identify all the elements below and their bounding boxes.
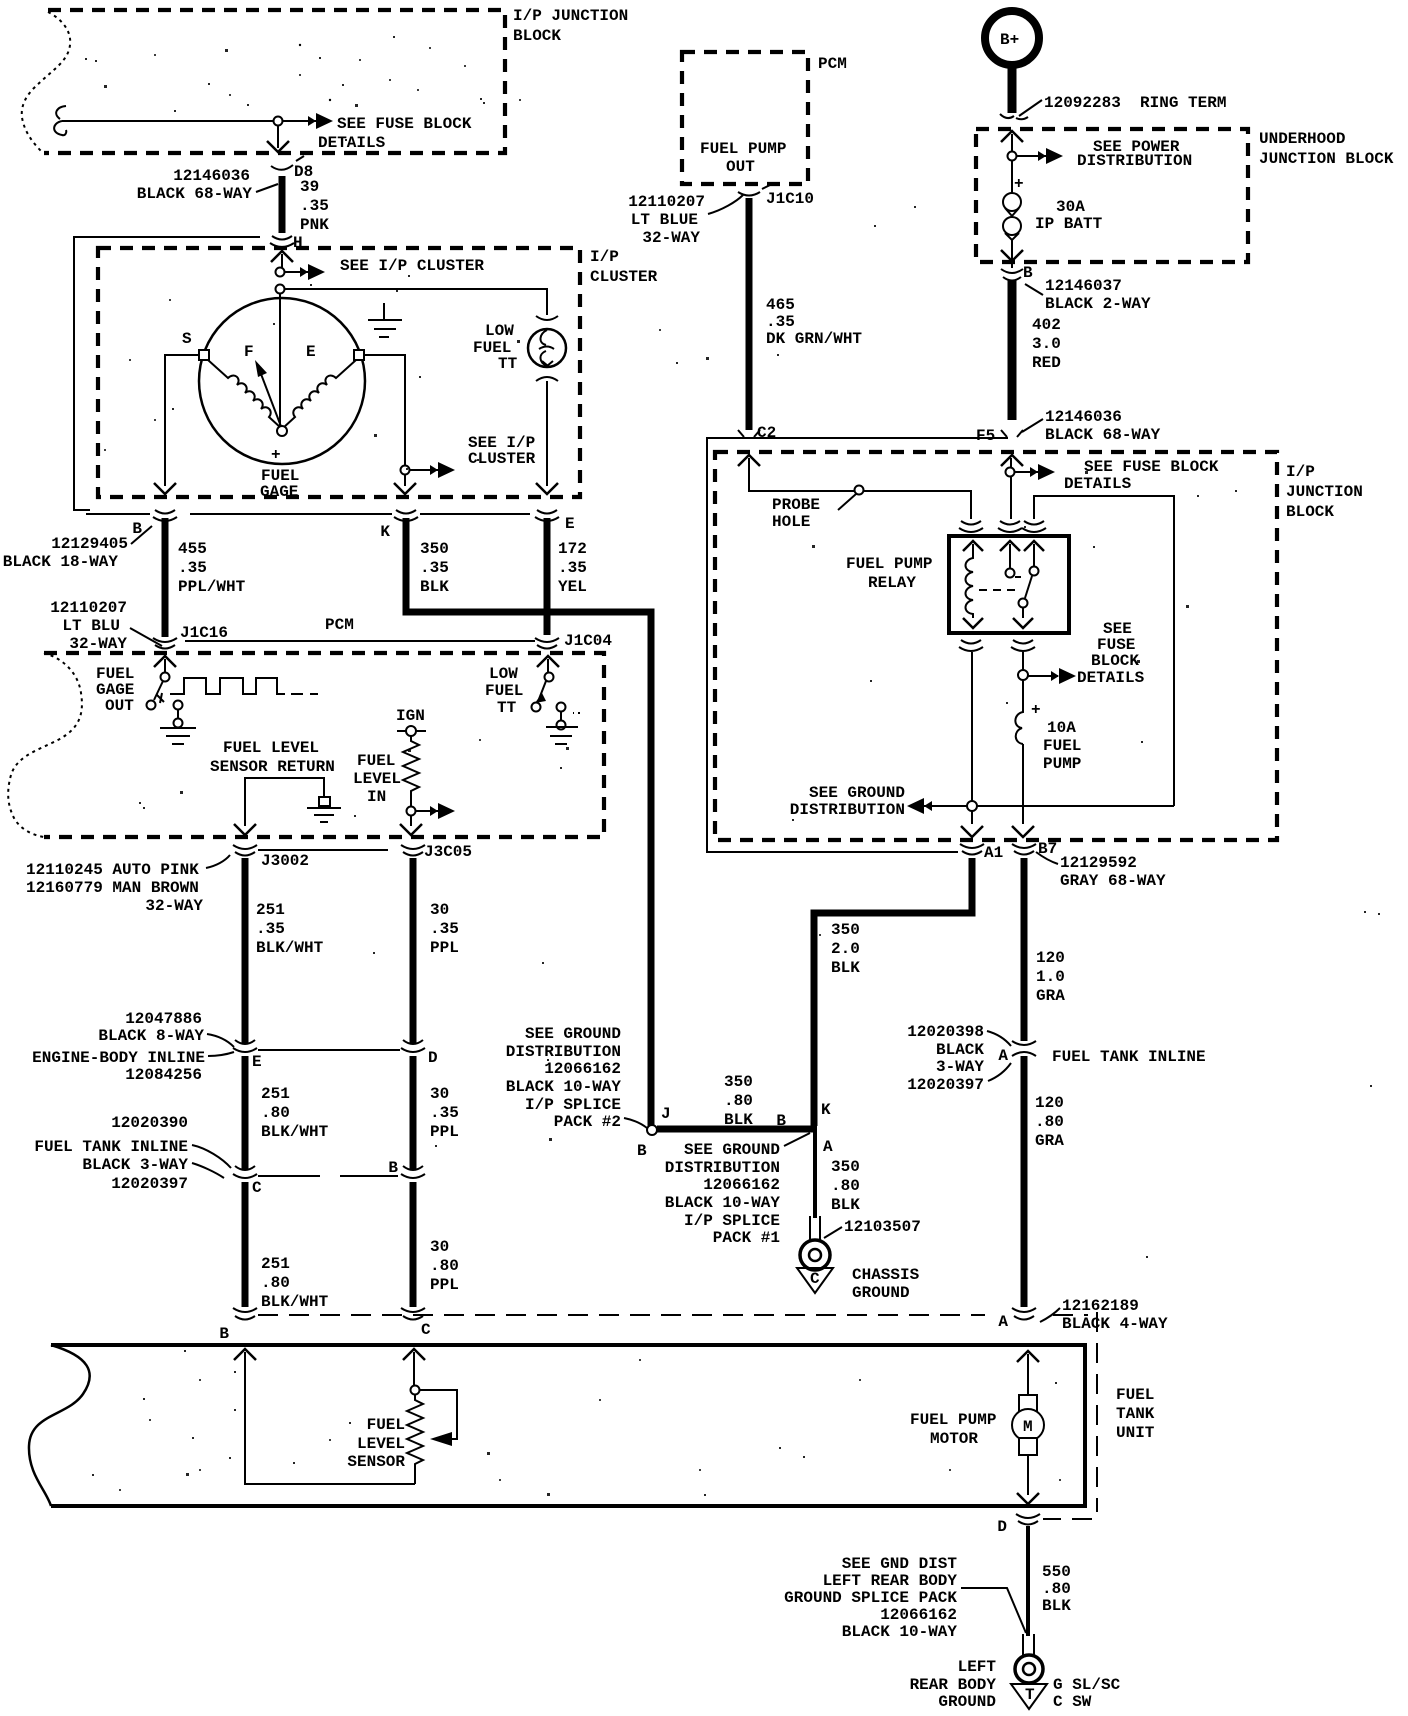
wire A1 350 2.0 BLK (thick): [814, 858, 972, 1126]
gauge left coil: [208, 360, 281, 428]
connector D8 cups: [271, 156, 304, 170]
label 12110207 LT BLU 32-WAY with leader: [50, 599, 162, 653]
connector B cups (2-way): [1001, 269, 1023, 281]
svg-text:BLACK 2-WAY: BLACK 2-WAY: [1045, 295, 1151, 313]
ground (sensor return): [307, 797, 341, 822]
svg-text:3-WAY: 3-WAY: [936, 1058, 984, 1076]
ground (low fuel tt): [546, 712, 578, 744]
label 251 .35 BLK/WHT: [256, 901, 324, 957]
relay pin arrowheads (top, up): [963, 541, 1044, 551]
node (junction) in I/P junction block: [274, 117, 283, 126]
connector E cups: [535, 510, 559, 521]
svg-text:.80: .80: [1035, 1113, 1064, 1131]
label 350 .80 BLK (chassis): [831, 1158, 860, 1214]
svg-text:UNDERHOOD: UNDERHOOD: [1259, 130, 1345, 148]
connector row line below cluster: [86, 513, 530, 515]
svg-text:C SW: C SW: [1053, 1693, 1092, 1711]
svg-text:455: 455: [178, 540, 207, 558]
svg-text:2.0: 2.0: [831, 940, 860, 958]
svg-text:LEFT REAR BODY: LEFT REAR BODY: [823, 1572, 958, 1590]
arrow SEE FUSE BLOCK DETAILS (lower): [1027, 668, 1076, 684]
svg-text:PNK: PNK: [300, 216, 329, 234]
arrow SEE FUSE BLOCK DETAILS (top right): [1015, 464, 1055, 480]
label 12129405 BLACK 18-WAY with leader: [3, 526, 152, 571]
svg-text:DISTRIBUTION: DISTRIBUTION: [1077, 152, 1192, 170]
svg-text:120: 120: [1036, 949, 1065, 967]
svg-text:DK GRN/WHT: DK GRN/WHT: [766, 330, 862, 348]
svg-text:B: B: [388, 1159, 398, 1177]
connector K cups: [394, 510, 418, 521]
arrowhead E exit (down): [536, 483, 558, 494]
wire 350 .80 BLK to chassis ground: [813, 1129, 817, 1218]
svg-text:FUEL: FUEL: [1116, 1386, 1154, 1404]
svg-text:30: 30: [430, 1085, 449, 1103]
svg-text:REAR BODY: REAR BODY: [910, 1676, 997, 1694]
sensor wiper loop: [420, 1390, 457, 1439]
sensor left wire: [245, 1352, 415, 1484]
wire 30 .80 PPL (thick): [410, 1182, 417, 1307]
svg-text:D: D: [997, 1518, 1007, 1536]
svg-text:BLACK 68-WAY: BLACK 68-WAY: [137, 185, 253, 203]
svg-text:FUEL: FUEL: [485, 682, 523, 700]
label FUEL PUMP OUT: [700, 140, 786, 176]
wire right pin riser: [1034, 496, 1174, 806]
svg-text:SENSOR RETURN: SENSOR RETURN: [210, 758, 335, 776]
connector A cups (fuel tank inline): [1012, 1041, 1036, 1056]
label 30A IP BATT: [1035, 198, 1103, 233]
svg-text:12146037: 12146037: [1045, 277, 1122, 295]
wire 550 .80 BLK: [1026, 1526, 1030, 1636]
svg-text:FUEL PUMP: FUEL PUMP: [846, 555, 932, 573]
label 12129592 GRAY 68-WAY with leader: [1036, 852, 1166, 890]
svg-text:350: 350: [420, 540, 449, 558]
fuel pump motor: [1012, 1354, 1044, 1495]
fuel gage circle: [199, 298, 365, 464]
svg-text:MOTOR: MOTOR: [930, 1430, 978, 1448]
svg-text:FUEL PUMP: FUEL PUMP: [700, 140, 786, 158]
wire hook (left end): [54, 106, 66, 135]
wire lamp to E exit: [546, 381, 548, 486]
label 12162189 BLACK 4-WAY with leader: [1040, 1297, 1168, 1333]
svg-text:BLK: BLK: [724, 1111, 753, 1129]
battery terminal B+: [985, 11, 1039, 65]
svg-text:BLK: BLK: [420, 578, 449, 596]
gauge terminal pad right: [354, 350, 364, 360]
I/P cluster dashed box: [98, 248, 580, 497]
label SEE GROUND DISTRIBUTION: [790, 784, 905, 819]
svg-text:B: B: [1023, 264, 1033, 282]
svg-text:12047886: 12047886: [125, 1010, 202, 1028]
svg-text:12146036: 12146036: [173, 167, 250, 185]
connector A1 cups: [960, 844, 984, 855]
svg-text:32-WAY: 32-WAY: [145, 897, 203, 915]
svg-text:172: 172: [558, 540, 587, 558]
wire down through underhood block: [1011, 134, 1013, 194]
wire 251 .80 BLK/WHT lower (thick): [242, 1182, 249, 1307]
label FUEL PUMP RELAY: [846, 555, 932, 592]
svg-text:12103507: 12103507: [844, 1218, 921, 1236]
node see ground distribution: [967, 801, 977, 811]
wire down from node to D8: [277, 126, 279, 148]
arrow SEE I/P CLUSTER lower: [410, 462, 455, 478]
svg-text:SEE FUSE BLOCK: SEE FUSE BLOCK: [1084, 458, 1219, 476]
label FUEL LEVEL SENSOR: [347, 1416, 405, 1471]
svg-text:BLK/WHT: BLK/WHT: [261, 1123, 329, 1141]
svg-text:I/P: I/P: [1286, 463, 1315, 481]
svg-text:.35: .35: [558, 559, 587, 577]
probe hole circle with slash: [838, 486, 864, 511]
svg-text:.35: .35: [420, 559, 449, 577]
svg-text:350: 350: [831, 1158, 860, 1176]
connector B cups: [153, 510, 177, 521]
sensor return wire bracket: [245, 778, 324, 826]
label B and K at chassis junction: [776, 1101, 833, 1156]
wire switch pin to fuse: [1022, 652, 1024, 670]
left rear body ground triangle: [1011, 1684, 1047, 1709]
label SEE POWER DISTRIBUTION: [1077, 138, 1192, 170]
svg-text:SEE I/P CLUSTER: SEE I/P CLUSTER: [340, 257, 484, 275]
label ip splice pack 1 block with leader: [665, 1133, 810, 1247]
label 402 3.0 RED: [1032, 316, 1061, 372]
svg-text:DISTRIBUTION: DISTRIBUTION: [665, 1159, 780, 1177]
svg-text:ENGINE-BODY INLINE: ENGINE-BODY INLINE: [32, 1049, 205, 1067]
svg-text:I/P SPLICE: I/P SPLICE: [525, 1096, 621, 1114]
underhood junction block dashed box: [976, 129, 1248, 262]
wire fuel level in exit: [410, 816, 412, 826]
ground (fuel gage out): [160, 710, 196, 744]
svg-text:GROUND SPLICE PACK: GROUND SPLICE PACK: [784, 1589, 957, 1607]
svg-text:120: 120: [1035, 1094, 1064, 1112]
label 12110207 LT BLUE 32-WAY with leader: [628, 193, 743, 247]
svg-text:OUT: OUT: [726, 158, 755, 176]
svg-text:E: E: [252, 1053, 262, 1071]
svg-text:GRAY 68-WAY: GRAY 68-WAY: [1060, 872, 1166, 890]
ring terminal connector cups: [1000, 114, 1028, 119]
wire 172 YEL (thick): [544, 518, 551, 635]
label 465 .35 DK GRN/WHT: [766, 296, 862, 348]
wire 455 PPL/WHT (thick): [162, 518, 169, 637]
inline connector E/D row line: [258, 1049, 400, 1051]
svg-text:F5: F5: [976, 427, 995, 445]
svg-text:39: 39: [300, 178, 319, 196]
wire coil pin to A1: [971, 652, 973, 824]
arrow SEE GROUND DISTRIBUTION (left): [907, 798, 932, 814]
svg-text:.35: .35: [766, 313, 795, 331]
svg-text:TT: TT: [498, 355, 518, 373]
fuel level sensor resistor: [407, 1395, 423, 1484]
connector E cups (engine-body inline): [233, 1040, 257, 1052]
gauge terminal pad S: [199, 350, 209, 360]
svg-text:CLUSTER: CLUSTER: [590, 268, 658, 286]
svg-text:LT BLU: LT BLU: [62, 617, 120, 635]
connector D cups (engine-body inline): [401, 1040, 425, 1052]
svg-text:J1C04: J1C04: [564, 632, 612, 650]
wire 251 .35 BLK/WHT (thick): [242, 858, 249, 1043]
label FUEL GAGE OUT: [96, 665, 134, 715]
label 350 .80 BLK (splice): [724, 1073, 753, 1129]
svg-text:PPL: PPL: [430, 939, 459, 957]
svg-text:I/P: I/P: [590, 248, 619, 266]
svg-text:IP BATT: IP BATT: [1035, 215, 1103, 233]
svg-text:BLACK 3-WAY: BLACK 3-WAY: [82, 1156, 188, 1174]
ground symbol (cluster): [368, 303, 402, 337]
connector J1C04 cups: [535, 638, 559, 649]
label 550 .80 BLK: [1042, 1563, 1071, 1615]
label 12020398 BLACK 3-WAY 12020397 with leaders: [907, 1023, 1011, 1094]
svg-text:S: S: [182, 330, 192, 348]
label FUEL PUMP MOTOR: [910, 1411, 996, 1448]
arrowhead motor ground exit (down): [1017, 1493, 1039, 1504]
wire C2 to probe line: [749, 458, 971, 519]
fuse 30A IP BATT: [1003, 193, 1021, 240]
wire right pad to K exit: [364, 355, 405, 486]
connector B7 cups: [1012, 844, 1036, 855]
svg-text:K: K: [821, 1101, 831, 1119]
svg-text:GROUND: GROUND: [852, 1284, 910, 1302]
connector J1C16 cups: [153, 638, 177, 649]
relay pin break cups (above relay): [959, 521, 1046, 532]
svg-text:LOW: LOW: [485, 322, 514, 340]
svg-text:.80: .80: [831, 1177, 860, 1195]
relay switch bottom arrowhead (down): [1013, 618, 1033, 628]
switch fuel gage out: [147, 659, 183, 710]
relay switch: [1006, 544, 1039, 618]
svg-text:+: +: [1031, 701, 1041, 719]
svg-text:A: A: [823, 1138, 833, 1156]
svg-text:GRA: GRA: [1035, 1132, 1064, 1150]
label G SL/SC C SW: [1053, 1676, 1121, 1711]
label 12020390 FUEL TANK INLINE BLACK 3-WAY 12020397 with leaders: [34, 1114, 231, 1193]
fuel pump relay box: [949, 536, 1069, 633]
thin bracket line around cluster: [74, 237, 260, 510]
fuel tank unit box (solid): [51, 1345, 1085, 1506]
wire fuse to B7: [1022, 744, 1024, 824]
svg-text:T: T: [1025, 1686, 1035, 1704]
arrowhead entering at C2 (up): [738, 455, 760, 466]
connector J3C05 cups: [401, 845, 425, 856]
svg-text:DETAILS: DETAILS: [1077, 669, 1145, 687]
svg-text:PPL/WHT: PPL/WHT: [178, 578, 246, 596]
gauge right coil: [283, 360, 356, 428]
connector C2 cups: [738, 430, 760, 437]
svg-text:30: 30: [430, 1238, 449, 1256]
svg-text:BLACK 4-WAY: BLACK 4-WAY: [1062, 1315, 1168, 1333]
svg-text:.35: .35: [300, 197, 329, 215]
svg-text:30: 30: [430, 901, 449, 919]
sensor feed wire: [413, 1352, 415, 1386]
label SEE FUSE BLOCK DETAILS (lower): [1077, 620, 1145, 687]
svg-text:32-WAY: 32-WAY: [69, 635, 127, 653]
svg-text:12110207: 12110207: [628, 193, 705, 211]
label 30 .35 PPL: [430, 901, 459, 957]
svg-text:BLK: BLK: [831, 1196, 860, 1214]
fuel tank unit dashed bracket: [258, 1312, 1097, 1519]
wire fuse to B connector: [1011, 240, 1013, 268]
arrowhead fuel pump motor feed (up): [1017, 1351, 1039, 1362]
svg-text:402: 402: [1032, 316, 1061, 334]
svg-text:K: K: [380, 523, 390, 541]
svg-text:BLOCK: BLOCK: [1286, 503, 1334, 521]
svg-text:J: J: [661, 1105, 671, 1123]
label 251 .80 BLK/WHT (third): [261, 1255, 329, 1311]
svg-text:PROBE: PROBE: [772, 496, 820, 514]
label FUEL LEVEL IN: [353, 752, 401, 806]
svg-text:RELAY: RELAY: [868, 574, 916, 592]
arrowhead exiting at A1 (down): [961, 826, 983, 837]
relay coil: [966, 544, 974, 618]
label 39 .35 PNK: [300, 178, 329, 234]
svg-text:SEE GROUND: SEE GROUND: [525, 1025, 621, 1043]
svg-text:12162189: 12162189: [1062, 1297, 1139, 1315]
label 120 .80 GRA: [1035, 1094, 1064, 1150]
svg-text:C: C: [421, 1321, 431, 1339]
svg-text:PACK #1: PACK #1: [713, 1229, 780, 1247]
svg-text:UNIT: UNIT: [1116, 1424, 1155, 1442]
wire 402 RED (thick): [1008, 280, 1017, 420]
node see fuse block (top): [1006, 468, 1015, 477]
splice circle B (ip splice pack 2): [647, 1125, 657, 1135]
label 350 .35 BLK: [420, 540, 449, 596]
connector J3002 cups: [233, 845, 257, 856]
svg-text:TANK: TANK: [1116, 1405, 1155, 1423]
svg-text:A: A: [998, 1047, 1008, 1065]
svg-text:OUT: OUT: [105, 697, 134, 715]
PCM box (fuel pump out) dashed: [682, 52, 808, 184]
arrowhead entering at F5 (up): [1001, 455, 1023, 466]
svg-text:FUEL TANK INLINE: FUEL TANK INLINE: [34, 1138, 188, 1156]
svg-text:HOLE: HOLE: [772, 513, 810, 531]
svg-text:32-WAY: 32-WAY: [642, 229, 700, 247]
IGN feed node with bar: [397, 726, 426, 736]
svg-text:LOW: LOW: [489, 665, 518, 683]
arrowhead fuel level in exit (down): [400, 824, 422, 835]
svg-text:PPL: PPL: [430, 1123, 459, 1141]
svg-text:DETAILS: DETAILS: [1064, 475, 1132, 493]
label ip splice pack 2 block: [506, 1025, 647, 1131]
svg-text:PPL: PPL: [430, 1276, 459, 1294]
connector H cups: [270, 236, 294, 247]
svg-text:251: 251: [261, 1085, 290, 1103]
arrowhead at box edge (down): [267, 141, 289, 152]
svg-text:G SL/SC: G SL/SC: [1053, 1676, 1121, 1694]
svg-text:TT: TT: [497, 699, 517, 717]
svg-text:BLOCK: BLOCK: [513, 27, 561, 45]
label I/P JUNCTION BLOCK: [513, 7, 628, 45]
label LOW FUEL TT: [473, 322, 518, 373]
connector B cups (tank): [233, 1308, 257, 1320]
square wave symbol: [170, 678, 318, 694]
connector C cups (fuel tank inline): [233, 1166, 257, 1178]
svg-text:12020390: 12020390: [111, 1114, 188, 1132]
gauge center node: [277, 426, 287, 436]
svg-text:C: C: [252, 1179, 262, 1197]
connector D cups (tank): [1016, 1514, 1040, 1525]
arrowhead K exit (down): [394, 483, 416, 494]
svg-text:GAGE: GAGE: [260, 483, 298, 501]
svg-text:.80: .80: [261, 1104, 290, 1122]
connector row J3002/J3C05 line: [258, 849, 388, 851]
svg-text:GRA: GRA: [1036, 987, 1065, 1005]
label 12110245 AUTO PINK 12160779 MAN BROWN 32-WAY with leader: [26, 855, 230, 915]
svg-text:.35: .35: [430, 920, 459, 938]
svg-text:BLK/WHT: BLK/WHT: [261, 1293, 329, 1311]
svg-text:J3C05: J3C05: [424, 843, 472, 861]
svg-text:30A: 30A: [1056, 198, 1085, 216]
svg-text:BLACK 18-WAY: BLACK 18-WAY: [3, 553, 119, 571]
svg-text:.80: .80: [261, 1274, 290, 1292]
I/P junction block (top-left) dashed outline: [22, 10, 505, 153]
label FUEL TANK UNIT: [1116, 1386, 1155, 1442]
wire node2 to lamp (right): [285, 289, 547, 315]
svg-text:350: 350: [831, 921, 860, 939]
wire 30 .35 PPL (thick): [410, 858, 417, 1043]
arrowhead B into tank (up): [234, 1349, 256, 1360]
wire S to left exit: [165, 355, 199, 486]
connector C cups (tank): [401, 1308, 425, 1320]
svg-text:251: 251: [256, 901, 285, 919]
svg-text:FUEL: FUEL: [1043, 737, 1081, 755]
node 2 (lamp feed): [276, 285, 285, 294]
svg-text:3.0: 3.0: [1032, 335, 1061, 353]
thin bracket around I/P junction block (right): [707, 438, 1008, 852]
svg-text:J1C10: J1C10: [766, 190, 814, 208]
svg-text:RED: RED: [1032, 354, 1061, 372]
label SEE FUSE BLOCK DETAILS (top right): [1064, 458, 1219, 493]
svg-text:SENSOR: SENSOR: [347, 1453, 405, 1471]
lamp upper cup: [536, 316, 558, 320]
svg-text:12066162: 12066162: [703, 1176, 780, 1194]
label PROBE HOLE: [772, 496, 820, 531]
svg-text:SEE GROUND: SEE GROUND: [684, 1141, 780, 1159]
arrowhead entering PCM at J1C04 (up): [537, 656, 559, 667]
label LEFT REAR BODY GROUND: [910, 1658, 997, 1711]
arrowhead exiting underhood block (down): [1001, 250, 1023, 261]
relay mechanical link (dashed): [979, 589, 1018, 591]
svg-text:PACK #2: PACK #2: [554, 1113, 621, 1131]
arrow fuel level in (right): [416, 803, 455, 819]
svg-text:BLACK 10-WAY: BLACK 10-WAY: [665, 1194, 781, 1212]
node SEE I/P CLUSTER (top): [276, 268, 285, 277]
switch low fuel tt: [532, 659, 581, 713]
svg-text:IN: IN: [367, 788, 386, 806]
wire 465 DK GRN/WHT (thick): [746, 198, 753, 430]
svg-text:BLACK 8-WAY: BLACK 8-WAY: [98, 1027, 204, 1045]
svg-text:.35: .35: [430, 1104, 459, 1122]
chassis ground triangle: [797, 1268, 833, 1293]
svg-text:GROUND: GROUND: [938, 1693, 996, 1711]
svg-text:BLK: BLK: [831, 959, 860, 977]
svg-text:12110207: 12110207: [50, 599, 127, 617]
inline connector C/B row line: [258, 1175, 398, 1177]
arrowhead entering PCM at J1C16 (up): [154, 656, 176, 667]
svg-text:12020397: 12020397: [111, 1175, 188, 1193]
label 10A FUEL PUMP: [1043, 719, 1081, 773]
svg-text:I/P JUNCTION: I/P JUNCTION: [513, 7, 628, 25]
label 30 .35 PPL (second): [430, 1085, 459, 1141]
PCM connector row line: [185, 640, 535, 642]
svg-text:12129592: 12129592: [1060, 854, 1137, 872]
svg-text:IGN: IGN: [396, 707, 425, 725]
svg-text:PCM: PCM: [818, 55, 847, 73]
wire to fuse block node: [62, 120, 278, 122]
label 12146036 BLACK 68-WAY (F5) with leader: [1022, 408, 1161, 444]
relay pin break cups (below relay): [959, 640, 1035, 651]
scan noise dots: [85, 36, 1380, 1496]
label FUEL GAGE: [260, 467, 299, 501]
label LOW FUEL TT (PCM): [485, 665, 523, 717]
svg-text:BLK/WHT: BLK/WHT: [256, 939, 324, 957]
svg-text:550: 550: [1042, 1563, 1071, 1581]
